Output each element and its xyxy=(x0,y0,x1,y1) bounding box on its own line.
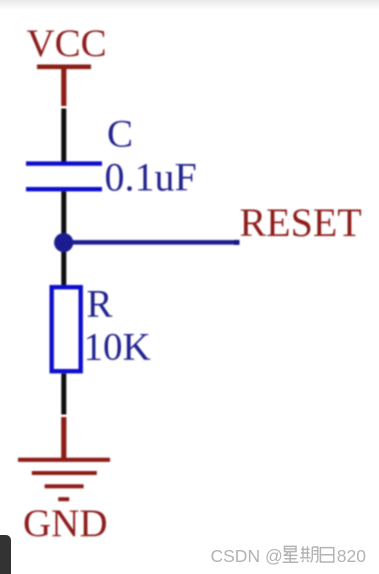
wire capacitor to resistor xyxy=(61,191,66,285)
capacitor C1 xyxy=(26,161,102,191)
resistor R1 xyxy=(52,287,81,371)
power symbol VCC bar xyxy=(37,65,91,107)
glyph 星 xyxy=(283,546,299,562)
glyph 期 xyxy=(300,546,318,562)
junction node xyxy=(54,233,73,252)
wire resistor to ground xyxy=(61,374,66,459)
svg-text:GND: GND xyxy=(23,502,108,545)
svg-text:R: R xyxy=(87,283,113,326)
wire node to RESET xyxy=(63,240,240,245)
node RESET label xyxy=(240,200,362,245)
glyph 日 xyxy=(320,548,333,562)
label C (capacitor name) xyxy=(107,113,133,156)
svg-text:RESET: RESET xyxy=(240,200,362,245)
svg-text:0.1uF: 0.1uF xyxy=(105,155,197,200)
wire VCC to capacitor xyxy=(61,109,66,163)
svg-text:VCC: VCC xyxy=(27,22,107,65)
label R (resistor name) xyxy=(87,283,113,326)
svg-text:C: C xyxy=(107,113,133,156)
ground symbol xyxy=(18,458,110,502)
UI scrollbar tab bottom-left xyxy=(0,535,11,574)
svg-text:CSDN @: CSDN @ xyxy=(211,546,283,566)
svg-text:10K: 10K xyxy=(84,326,151,369)
watermark CSDN xyxy=(211,546,367,566)
svg-text:820: 820 xyxy=(337,546,366,566)
label 0.1uF (capacitor value) xyxy=(105,155,197,200)
node GND label xyxy=(23,502,108,545)
node VCC label xyxy=(27,22,107,65)
label 10K (resistor value) xyxy=(84,326,151,369)
